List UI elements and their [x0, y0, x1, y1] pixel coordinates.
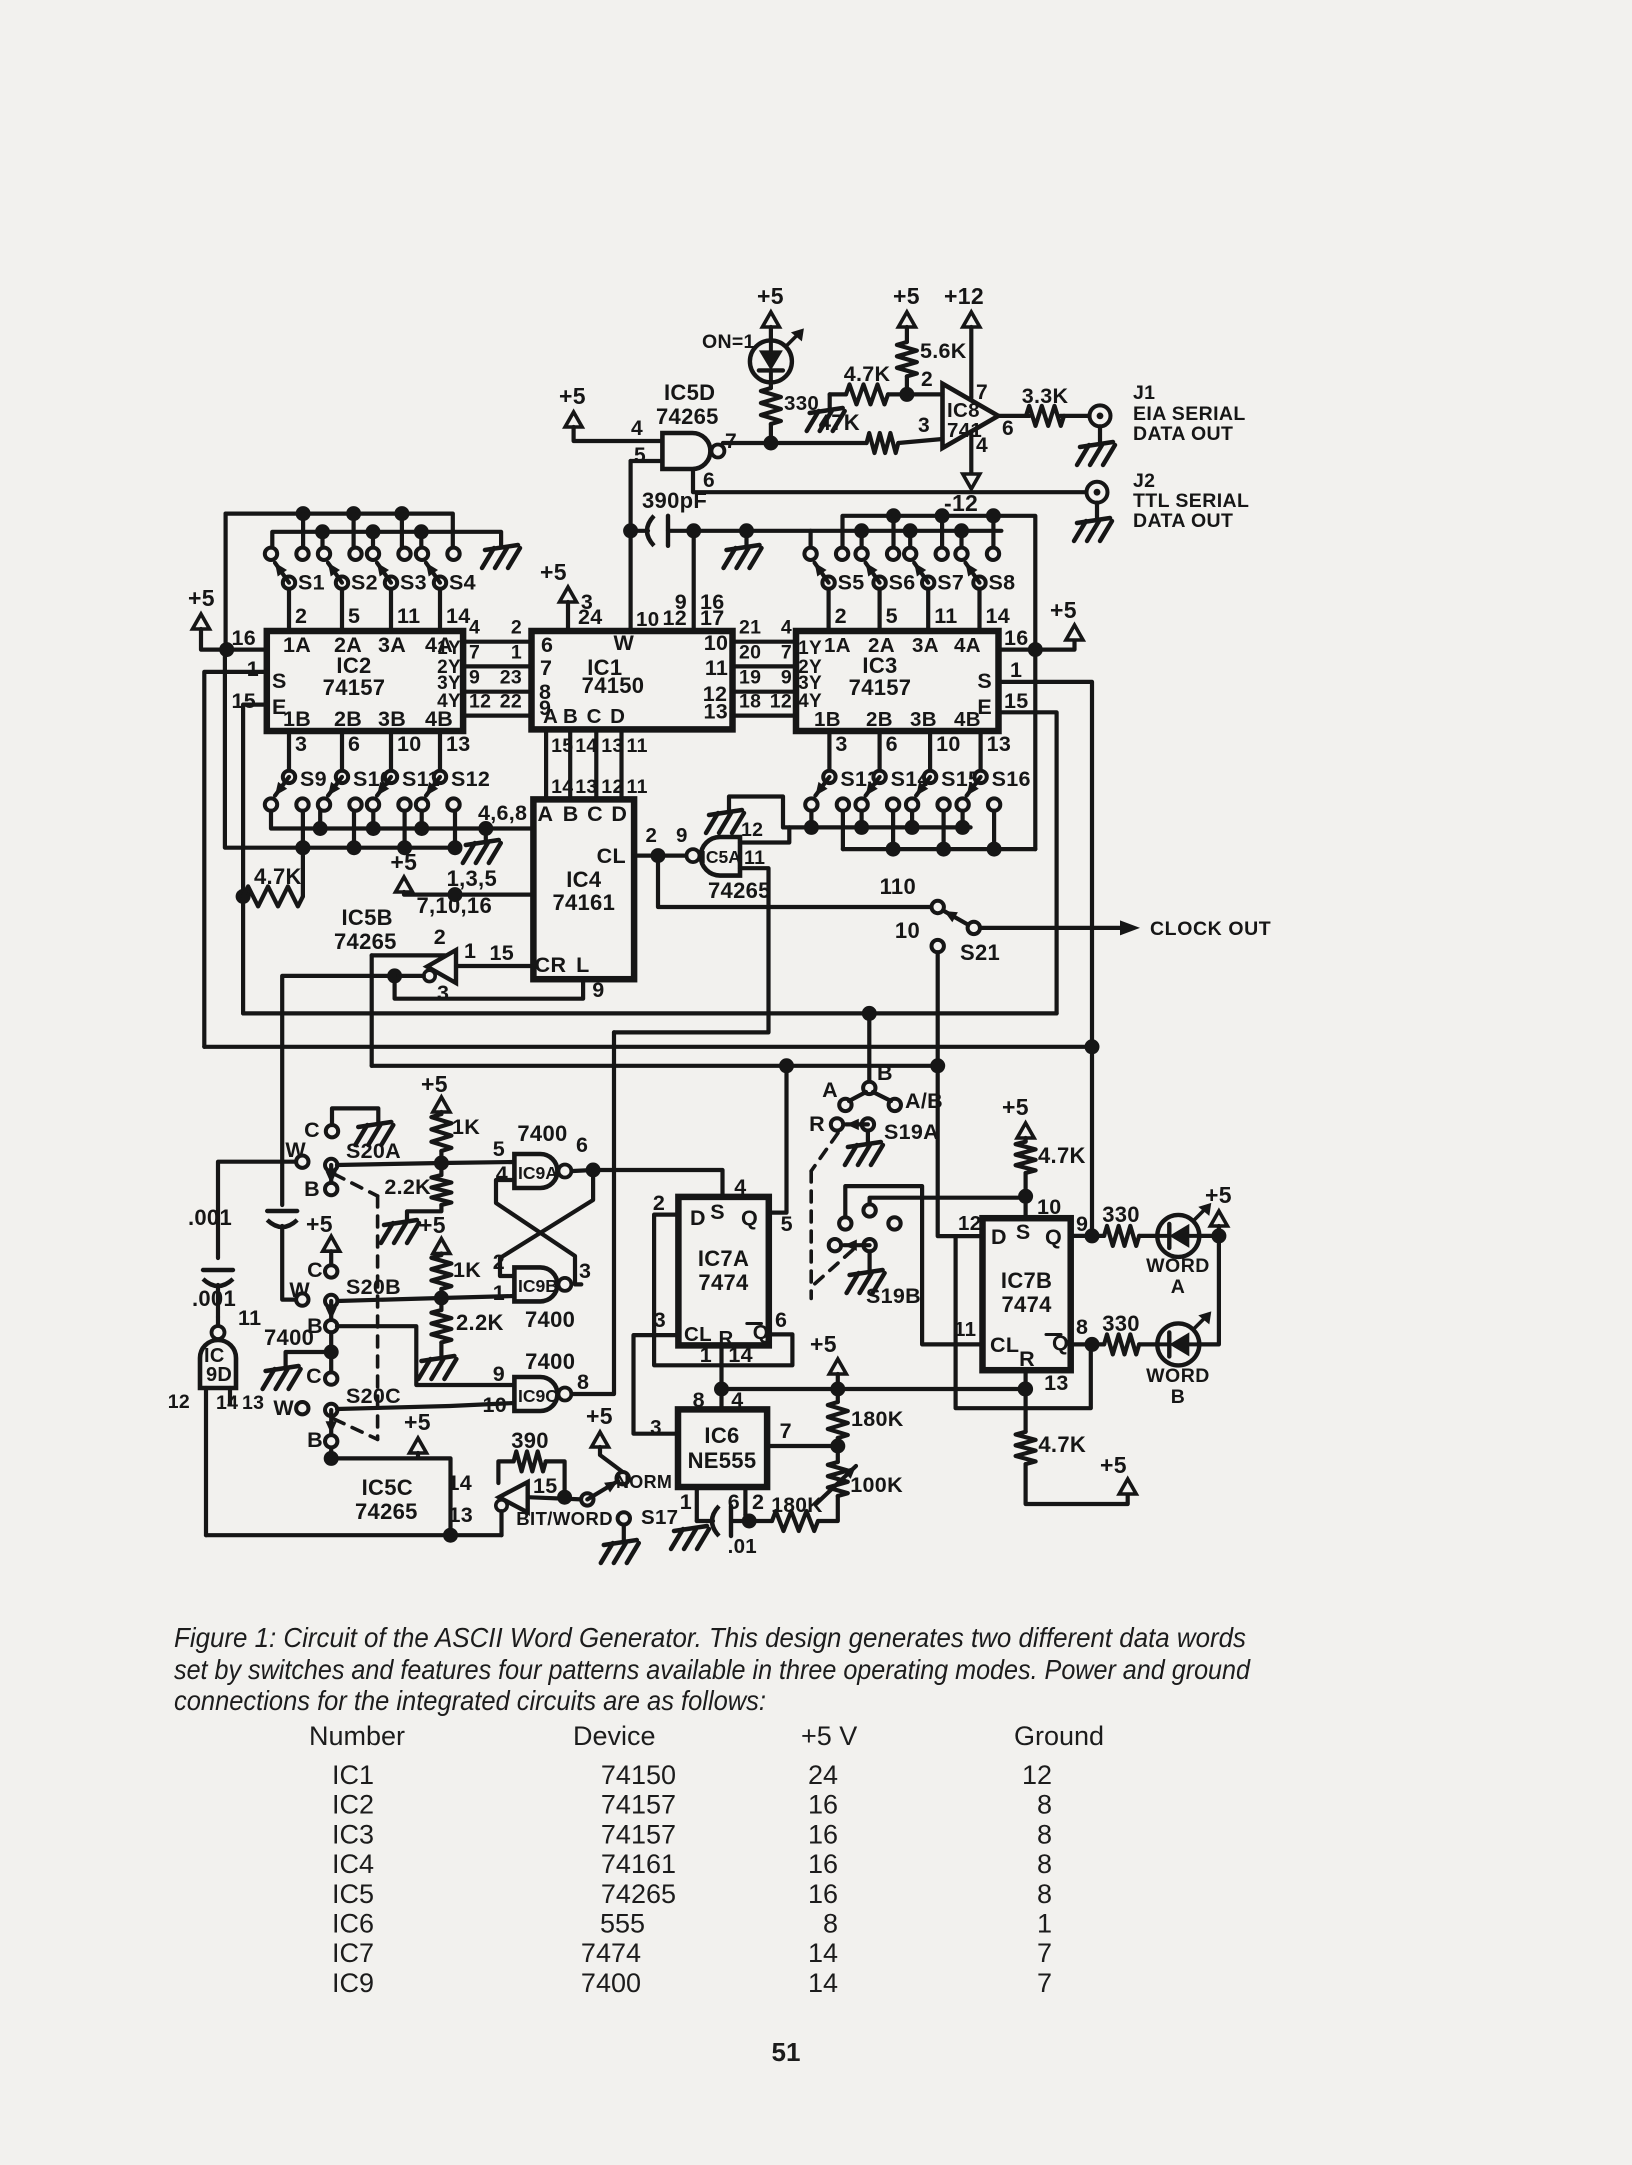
svg-text:1B: 1B	[283, 707, 311, 731]
svg-text:12: 12	[741, 819, 763, 841]
svg-text:13: 13	[242, 1392, 264, 1414]
op-amp IC8 741	[943, 384, 999, 448]
svg-text:3: 3	[918, 414, 930, 437]
svg-text:A: A	[537, 802, 553, 826]
svg-text:IC7B: IC7B	[1001, 1268, 1052, 1293]
svg-text:8: 8	[823, 1909, 838, 1939]
svg-text:4.7K: 4.7K	[1038, 1432, 1086, 1457]
wire IC5B output to cap chain	[282, 976, 394, 1205]
svg-text:110: 110	[880, 874, 916, 899]
svg-text:4: 4	[781, 617, 792, 639]
svg-text:390: 390	[511, 1428, 549, 1453]
svg-text:CLOCK OUT: CLOCK OUT	[1150, 918, 1271, 940]
svg-text:7: 7	[976, 381, 988, 404]
svg-text:IC2: IC2	[332, 1790, 374, 1820]
svg-text:BIT/WORD: BIT/WORD	[516, 1508, 613, 1529]
svg-text:2: 2	[511, 617, 522, 639]
wire IC6 pin 7	[767, 1444, 838, 1448]
svg-text:1: 1	[493, 1281, 505, 1305]
wire IC9C input 9	[337, 1326, 514, 1385]
svg-text:1,3,5: 1,3,5	[447, 866, 497, 891]
svg-text:7400: 7400	[525, 1349, 575, 1374]
svg-text:12: 12	[958, 1212, 981, 1235]
svg-text:IC5B: IC5B	[342, 905, 393, 930]
svg-text:17: 17	[700, 606, 725, 630]
svg-text:7400: 7400	[581, 1968, 641, 1998]
wire IC6 pin 1 to ground	[695, 1487, 699, 1521]
svg-text:IC5A: IC5A	[701, 847, 741, 867]
resistor 4.7K at IC7B R	[1016, 1432, 1036, 1464]
svg-text:J2: J2	[1133, 470, 1155, 492]
svg-text:1: 1	[1010, 658, 1022, 682]
svg-text:CR: CR	[535, 953, 567, 977]
svg-text:15: 15	[489, 941, 514, 965]
wire S20B pivot to 1K node to IC9B input 1	[337, 1296, 514, 1301]
svg-text:8: 8	[1037, 1879, 1052, 1909]
svg-text:3.3K: 3.3K	[1022, 384, 1069, 408]
svg-text:74161: 74161	[552, 890, 615, 915]
svg-text:16: 16	[808, 1790, 838, 1820]
svg-text:TTL SERIAL: TTL SERIAL	[1133, 490, 1249, 512]
wire select line S to IC7B Q	[204, 1045, 1092, 1049]
svg-text:B: B	[1171, 1386, 1185, 1408]
svg-text:16: 16	[808, 1879, 838, 1909]
svg-text:23: 23	[500, 667, 522, 689]
wire IC6 pins 6,2	[743, 1487, 747, 1515]
wire S20B B chain to ground and S20C	[329, 1332, 333, 1372]
LED word A	[1157, 1215, 1199, 1257]
svg-text:74265: 74265	[601, 1879, 676, 1909]
node 390pF junction on W line	[623, 523, 638, 538]
IC4 74161 counter	[533, 799, 634, 979]
svg-text:.01: .01	[728, 1535, 757, 1558]
svg-text:2: 2	[835, 604, 847, 628]
svg-text:S4: S4	[449, 571, 476, 595]
power -12 rail	[969, 434, 973, 474]
svg-text:6: 6	[886, 732, 898, 756]
svg-text:+5: +5	[893, 283, 920, 309]
svg-text:+5: +5	[540, 559, 567, 585]
svg-text:14: 14	[446, 604, 471, 628]
wire IC5D input 5 from IC1 W output	[631, 459, 663, 463]
wire IC9A out to IC7A S pin	[593, 1170, 722, 1197]
svg-text:S9: S9	[300, 767, 327, 791]
svg-text:6: 6	[541, 633, 553, 657]
wire IC5C input 15 to S17	[528, 1497, 581, 1499]
svg-text:IC9C: IC9C	[518, 1386, 558, 1406]
svg-text:74157: 74157	[323, 675, 386, 700]
wire ground bus S5-S8	[694, 531, 811, 548]
svg-text:2.2K: 2.2K	[384, 1175, 431, 1199]
svg-text:1Y: 1Y	[798, 638, 822, 659]
svg-text:11: 11	[705, 656, 728, 680]
svg-text:1: 1	[511, 641, 522, 663]
svg-text:Device: Device	[573, 1721, 656, 1751]
svg-text:S19A: S19A	[884, 1120, 939, 1144]
wires IC2 pins to S9-S12	[287, 731, 291, 771]
svg-text:IC9A: IC9A	[518, 1163, 558, 1183]
switch A/B select	[867, 1013, 871, 1081]
svg-text:B: B	[563, 802, 579, 826]
wire IC9A output node	[573, 1170, 593, 1171]
switch S19B contacts upper	[839, 1217, 851, 1229]
svg-text:+5 V: +5 V	[801, 1721, 857, 1751]
svg-text:7: 7	[469, 641, 480, 663]
switch S17 NORM/BIT-WORD	[581, 1493, 593, 1505]
wire S21 10 contact down to IC7B D	[938, 1198, 983, 1236]
ground at S20A 2.2K	[384, 1220, 417, 1225]
capacitor .01	[697, 1519, 713, 1523]
wire IC7B R pin	[1023, 1370, 1027, 1432]
gate IC5A 74265	[701, 837, 740, 876]
svg-text:12: 12	[770, 691, 792, 713]
svg-text:2B: 2B	[334, 707, 362, 731]
resistor 4.7K (op-amp input)	[830, 392, 846, 396]
switch S2	[318, 548, 330, 560]
svg-text:16: 16	[808, 1819, 838, 1849]
svg-text:D: D	[611, 802, 627, 826]
resistor 330 (LED)	[769, 382, 773, 388]
svg-text:L: L	[576, 953, 589, 977]
svg-text:5: 5	[781, 1212, 793, 1236]
svg-text:16: 16	[808, 1849, 838, 1879]
svg-text:4.7K: 4.7K	[1038, 1143, 1086, 1168]
svg-text:+5: +5	[757, 283, 784, 309]
switch S3	[367, 548, 379, 560]
svg-text:Figure 1: Circuit of the ASCII: Figure 1: Circuit of the ASCII Word Gene…	[174, 1622, 1246, 1653]
svg-text:S1: S1	[298, 571, 325, 595]
svg-text:4A: 4A	[954, 634, 981, 657]
resistor 47K	[867, 433, 899, 453]
svg-text:10: 10	[895, 918, 920, 943]
svg-text:R: R	[1019, 1347, 1035, 1371]
svg-text:CL: CL	[597, 844, 626, 868]
svg-text:D: D	[991, 1225, 1007, 1249]
LED word B	[1157, 1323, 1199, 1365]
svg-text:2B: 2B	[866, 708, 893, 731]
IC6 NE555 timer	[678, 1409, 767, 1487]
svg-text:14: 14	[808, 1938, 838, 1968]
svg-text:7474: 7474	[1002, 1292, 1053, 1317]
svg-text:+5: +5	[586, 1403, 613, 1429]
svg-text:7474: 7474	[581, 1938, 641, 1968]
wire IC4 CR pin 15 to IC5B	[456, 964, 533, 968]
svg-text:74150: 74150	[601, 1760, 676, 1790]
svg-text:3B: 3B	[910, 708, 937, 731]
svg-text:S8: S8	[989, 571, 1016, 595]
svg-text:2: 2	[434, 925, 446, 949]
svg-text:A/B: A/B	[905, 1089, 943, 1113]
svg-text:1A: 1A	[283, 633, 311, 657]
svg-text:16: 16	[1004, 626, 1029, 650]
svg-text:NE555: NE555	[688, 1448, 757, 1473]
svg-text:7: 7	[1037, 1968, 1052, 1998]
svg-text:IC5C: IC5C	[362, 1475, 413, 1500]
svg-text:11: 11	[744, 847, 765, 869]
svg-text:NORM: NORM	[616, 1472, 672, 1492]
svg-text:2: 2	[295, 604, 307, 628]
svg-text:7: 7	[540, 656, 552, 680]
wire IC5D output to LED node	[723, 441, 771, 445]
svg-text:555: 555	[600, 1909, 645, 1939]
connector J2 TTL serial out	[1087, 482, 1108, 503]
svg-text:14: 14	[447, 1471, 472, 1495]
svg-text:74150: 74150	[582, 673, 645, 698]
svg-text:Number: Number	[309, 1721, 405, 1751]
wire LED B to +5 rail	[1199, 1236, 1219, 1345]
svg-text:4.7K: 4.7K	[844, 362, 891, 386]
bus +5 for S5-S8	[843, 516, 1036, 650]
svg-text:ON=1: ON=1	[702, 331, 755, 353]
wire IC9C output up to IC5A net	[573, 1032, 614, 1394]
wire CLOCK OUT with arrow	[980, 926, 1128, 930]
svg-text:C: C	[587, 802, 603, 826]
IC7B 7474 flip-flop	[983, 1218, 1071, 1370]
svg-text:330: 330	[1102, 1311, 1140, 1336]
switch S10	[318, 798, 330, 810]
wire S20A W to IC9D via .001 cap	[218, 1162, 296, 1258]
wire IC5C output to bottom bus	[499, 1511, 503, 1535]
gate IC5D 74265	[662, 433, 710, 469]
svg-text:74157: 74157	[849, 675, 912, 700]
svg-text:16: 16	[231, 626, 256, 650]
svg-text:12: 12	[469, 691, 491, 713]
svg-text:6: 6	[775, 1308, 787, 1332]
svg-text:D: D	[690, 1206, 706, 1230]
svg-text:3A: 3A	[912, 634, 939, 657]
wire R stem to IC7B R	[1018, 1382, 1033, 1397]
dashed gang S20C	[334, 1419, 378, 1439]
svg-text:1: 1	[464, 939, 476, 963]
svg-text:+5: +5	[559, 383, 586, 409]
ground S1-S4 bus	[485, 545, 518, 550]
svg-text:7400: 7400	[264, 1325, 314, 1350]
ground on S5-S8 bus	[739, 523, 754, 538]
wire op-amp output	[998, 414, 1029, 418]
svg-text:IC3: IC3	[332, 1819, 374, 1849]
svg-text:10: 10	[636, 608, 659, 631]
wires IC1 outputs to IC3 inputs	[733, 640, 797, 644]
node LED/330/47K junction	[763, 436, 778, 451]
svg-text:+5: +5	[404, 1409, 431, 1435]
wire IC7A R pin down	[719, 1345, 723, 1409]
wire 4.7K to +5	[1026, 1464, 1128, 1504]
svg-text:51: 51	[772, 2037, 801, 2067]
svg-text:S19B: S19B	[866, 1284, 921, 1308]
bus1 +5 S1-S4 left drop	[224, 514, 228, 650]
wire IC7B Qbar output	[1071, 1342, 1104, 1346]
svg-text:IC6: IC6	[332, 1909, 374, 1939]
svg-text:connections for the integrated: connections for the integrated circuits …	[174, 1685, 766, 1716]
svg-text:13: 13	[704, 700, 729, 724]
svg-text:Q: Q	[1045, 1225, 1062, 1249]
svg-text:9D: 9D	[206, 1364, 232, 1386]
svg-text:5.6K: 5.6K	[920, 339, 967, 363]
svg-text:WORD: WORD	[1146, 1365, 1210, 1387]
IC1 74150 multiplexer	[532, 631, 733, 729]
svg-text:24: 24	[578, 605, 603, 629]
svg-text:4: 4	[631, 417, 643, 440]
svg-text:100K: 100K	[850, 1473, 903, 1497]
svg-text:+5: +5	[1205, 1182, 1232, 1208]
svg-text:74265: 74265	[334, 929, 397, 954]
wire S21 vertical	[936, 952, 940, 1197]
svg-text:4,6,8: 4,6,8	[478, 801, 527, 825]
wire 110 baud from CL node to S21	[658, 856, 932, 907]
wires IC1 ABCD to IC4	[544, 729, 548, 799]
svg-text:7474: 7474	[698, 1270, 749, 1295]
svg-text:7400: 7400	[517, 1121, 567, 1146]
bus ground drops S5-S8	[854, 523, 869, 538]
svg-text:4: 4	[976, 434, 988, 457]
svg-text:-12: -12	[944, 490, 978, 516]
svg-text:9: 9	[493, 1362, 505, 1386]
svg-text:9: 9	[676, 824, 688, 847]
svg-text:1K: 1K	[452, 1115, 480, 1139]
IC2 74157 multiplexer	[267, 631, 463, 731]
wire IC5B output node	[395, 974, 424, 978]
svg-text:11: 11	[934, 604, 957, 628]
wire IC7B D toggle loop from Qbar	[956, 1236, 1091, 1408]
svg-text:74265: 74265	[355, 1499, 418, 1524]
resistor 2.2K S20A	[439, 1163, 443, 1175]
svg-text:C: C	[304, 1118, 320, 1142]
svg-text:20: 20	[739, 641, 761, 663]
svg-text:13: 13	[1044, 1371, 1069, 1395]
resistor 1K S20A	[431, 1114, 451, 1151]
wire S20C pivot to IC9C input 10	[337, 1403, 514, 1409]
wire IC3 S pin 1 select	[999, 682, 1093, 1236]
svg-text:S5: S5	[838, 571, 865, 595]
svg-text:13: 13	[448, 1503, 473, 1527]
dashed gang line S19	[811, 1133, 838, 1171]
bus ground for S1-S4	[272, 532, 501, 548]
resistor 330 word A	[1104, 1226, 1139, 1246]
svg-text:+5: +5	[419, 1212, 446, 1238]
svg-text:74161: 74161	[601, 1849, 676, 1879]
svg-text:13: 13	[987, 732, 1012, 756]
svg-text:74265: 74265	[708, 878, 771, 903]
svg-text:3B: 3B	[378, 707, 406, 731]
svg-text:1Y: 1Y	[437, 638, 461, 659]
svg-text:9: 9	[469, 667, 480, 689]
svg-text:A: A	[543, 705, 558, 728]
svg-text:5: 5	[493, 1137, 505, 1161]
wire S19B left contact to IC7B CL	[845, 1186, 982, 1344]
bus +5 S13-S16	[841, 811, 845, 849]
wire IC5A pin 11 down to IC9C net	[614, 868, 769, 1032]
connector J1 EIA serial out	[1090, 405, 1111, 426]
svg-text:S3: S3	[400, 571, 427, 595]
switch S13	[805, 798, 817, 810]
svg-text:3: 3	[650, 1416, 662, 1439]
svg-text:CL: CL	[990, 1333, 1019, 1357]
svg-text:13: 13	[575, 776, 597, 798]
svg-text:7: 7	[780, 1419, 792, 1443]
svg-text:8: 8	[1076, 1315, 1088, 1339]
svg-text:S20C: S20C	[346, 1384, 401, 1408]
svg-text:+5: +5	[1002, 1094, 1029, 1120]
svg-text:12: 12	[662, 606, 687, 630]
svg-text:74157: 74157	[601, 1819, 676, 1849]
resistor 330 word B	[1104, 1334, 1139, 1354]
LED ON=1 indicator	[750, 340, 792, 382]
switch S4	[416, 548, 428, 560]
svg-text:IC6: IC6	[704, 1423, 739, 1448]
wire IC7A D toggle loop from Qbar	[654, 1215, 792, 1366]
svg-text:1A: 1A	[824, 634, 851, 657]
wire IC2 E pin 15	[243, 705, 267, 1014]
svg-text:8: 8	[1037, 1819, 1052, 1849]
svg-text:18: 18	[739, 691, 761, 713]
wire 390pF to IC1 pins 16/17	[692, 531, 696, 631]
svg-text:7400: 7400	[525, 1307, 575, 1332]
svg-text:12: 12	[1022, 1760, 1052, 1790]
node 390pF right junction	[686, 523, 701, 538]
svg-text:E: E	[272, 695, 287, 719]
switch S15	[906, 798, 918, 810]
svg-text:6: 6	[728, 1490, 740, 1514]
svg-text:Ground: Ground	[1014, 1721, 1104, 1751]
svg-text:10: 10	[936, 732, 961, 756]
svg-text:2: 2	[752, 1490, 764, 1514]
svg-text:14: 14	[728, 1343, 753, 1367]
svg-text:3A: 3A	[378, 633, 406, 657]
svg-text:S: S	[272, 669, 287, 693]
svg-text:B: B	[563, 705, 578, 728]
svg-text:15: 15	[533, 1474, 558, 1498]
resistor 5.6K pullup	[897, 342, 917, 376]
wire clock line to S21	[372, 1064, 938, 1068]
switch S7	[904, 548, 916, 560]
svg-text:S16: S16	[992, 767, 1031, 791]
wire S20A pivot to IC9A	[337, 1162, 514, 1165]
svg-text:5: 5	[886, 604, 898, 628]
svg-text:IC5: IC5	[332, 1879, 374, 1909]
svg-text:19: 19	[739, 667, 761, 689]
wire IC7B Q output	[1071, 1234, 1104, 1238]
svg-text:S20B: S20B	[346, 1275, 401, 1299]
svg-text:10: 10	[482, 1393, 507, 1417]
wire IC2 S pin 1	[204, 672, 266, 1047]
svg-text:24: 24	[808, 1760, 838, 1790]
svg-text:4.7K: 4.7K	[254, 864, 302, 889]
power +5 at IC3 pin 16	[999, 640, 1075, 650]
wire IC7A CL from IC6 output	[634, 1335, 679, 1434]
switch S12	[416, 798, 428, 810]
svg-text:DATA OUT: DATA OUT	[1133, 510, 1233, 532]
svg-text:9: 9	[781, 667, 792, 689]
svg-text:.001: .001	[188, 1205, 232, 1230]
svg-text:180K: 180K	[851, 1407, 904, 1431]
resistor 390 feedback	[498, 1461, 513, 1483]
svg-text:6: 6	[1002, 417, 1014, 440]
svg-text:8: 8	[577, 1370, 589, 1394]
svg-text:.001: .001	[192, 1286, 236, 1311]
svg-text:2: 2	[646, 824, 658, 847]
switch S11	[367, 798, 379, 810]
svg-text:12: 12	[168, 1391, 190, 1413]
svg-text:6: 6	[348, 732, 360, 756]
svg-text:1: 1	[1037, 1909, 1052, 1939]
resistor 3.3K	[1026, 406, 1064, 426]
svg-text:3: 3	[437, 981, 449, 1005]
svg-text:J1: J1	[1133, 382, 1155, 404]
potentiometer 100K	[828, 1462, 848, 1496]
wires IC2 outputs to IC1 inputs	[463, 640, 531, 644]
svg-text:74157: 74157	[601, 1790, 676, 1820]
svg-text:C: C	[587, 705, 602, 728]
